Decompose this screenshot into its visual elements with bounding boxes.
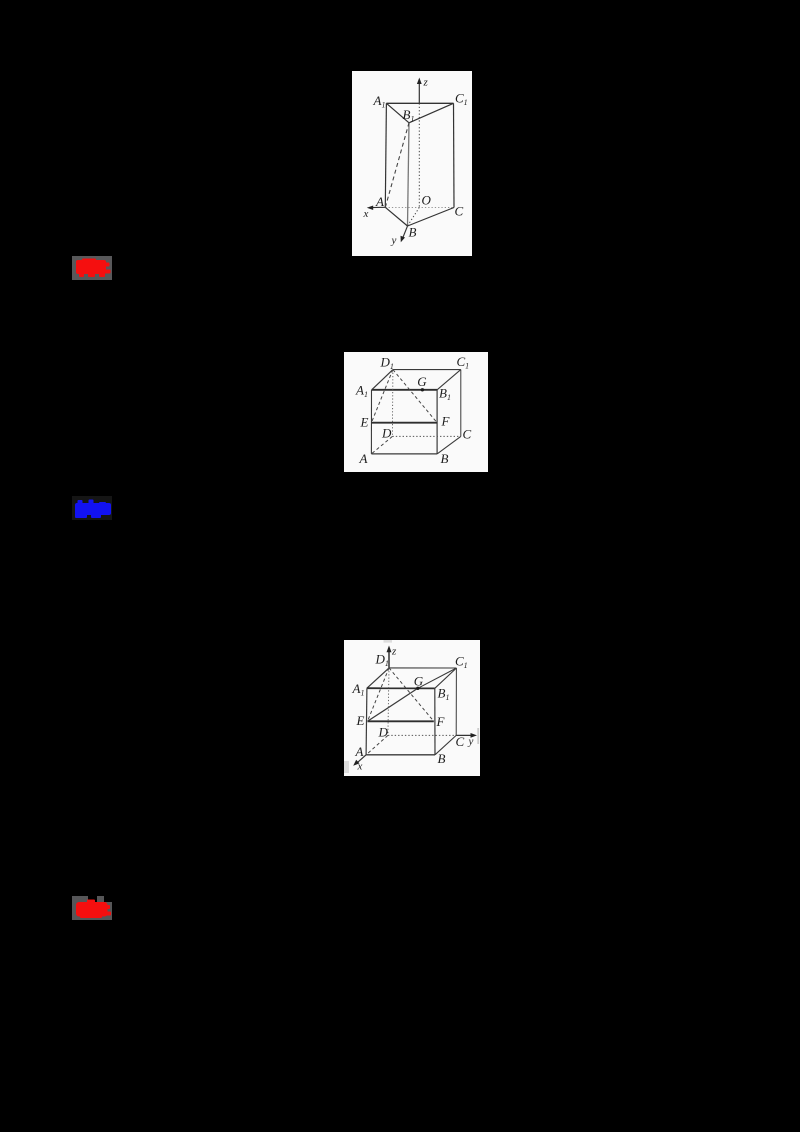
y-axis from C xyxy=(456,734,473,736)
edge EF thick xyxy=(371,422,437,424)
dashed D1-F xyxy=(389,668,434,721)
svg-text:B: B xyxy=(438,751,446,766)
edge C C1 xyxy=(460,370,462,437)
blue tag xyxy=(72,496,112,520)
edge B1C1 xyxy=(437,370,461,390)
svg-text:C1: C1 xyxy=(457,354,470,371)
dashed D-A xyxy=(371,436,392,454)
red tag 2 xyxy=(72,896,88,920)
artifact gray square bottom left xyxy=(344,761,349,773)
dotted D1-D xyxy=(388,668,389,736)
solid G-C1 xyxy=(418,668,457,688)
dotted D-C xyxy=(392,435,460,437)
y-axis solid B to arrow xyxy=(403,226,408,239)
edge BC xyxy=(435,735,456,754)
edge B B1 xyxy=(436,390,438,454)
svg-text:C: C xyxy=(455,204,464,219)
edge EF thick xyxy=(368,720,434,722)
edge B1C1 xyxy=(435,668,457,688)
x-axis from A xyxy=(356,755,366,764)
svg-text:F: F xyxy=(441,413,451,428)
x-axis arrow from A xyxy=(371,206,385,208)
svg-text:C: C xyxy=(456,734,465,749)
edge A1A xyxy=(385,103,386,207)
edge AB xyxy=(371,453,437,455)
dashed D1-E xyxy=(368,668,390,721)
z-axis arrow xyxy=(418,82,420,103)
svg-text:D1: D1 xyxy=(375,652,389,669)
dashed D-A xyxy=(366,735,388,754)
artifact light bar right xyxy=(477,728,479,744)
svg-text:z: z xyxy=(391,646,397,658)
svg-text:G: G xyxy=(417,374,427,389)
edge A1D1 xyxy=(372,370,393,390)
svg-text:A1: A1 xyxy=(355,383,368,400)
y-axis dotted O to B xyxy=(408,207,420,226)
svg-text:G: G xyxy=(414,673,424,688)
edge A1C1 xyxy=(386,102,453,104)
svg-text:B1: B1 xyxy=(439,386,451,403)
artifact gray tab top xyxy=(384,640,393,643)
dotted D1-D xyxy=(391,370,394,437)
edge B B1 xyxy=(434,688,436,755)
edge BC xyxy=(437,436,461,454)
z-axis dotted inside prism down to O xyxy=(418,103,420,207)
svg-text:A1: A1 xyxy=(352,681,365,698)
svg-text:D: D xyxy=(378,725,389,740)
panel 2: cube figure (no axes) xyxy=(344,352,488,472)
edge A1B1 thick xyxy=(367,687,435,689)
edge A1D1 xyxy=(367,668,389,688)
edge B1B xyxy=(408,123,410,226)
edge D1C1 xyxy=(393,369,461,371)
dotted D-C xyxy=(388,734,456,736)
edge A-B xyxy=(385,207,407,226)
svg-text:A: A xyxy=(359,451,368,466)
edge C1C xyxy=(453,103,456,207)
svg-text:x: x xyxy=(357,761,363,773)
svg-text:B1: B1 xyxy=(438,686,450,703)
edge C C1 xyxy=(455,668,457,735)
panel 1: triangular prism figure xyxy=(352,71,472,256)
svg-text:A: A xyxy=(375,194,384,209)
edge A1B1 xyxy=(386,103,409,123)
svg-text:x: x xyxy=(363,208,369,220)
svg-text:C1: C1 xyxy=(455,91,468,108)
edge A A1 xyxy=(365,688,368,755)
edge AB xyxy=(366,754,435,756)
edge B-C xyxy=(408,208,455,227)
dashed D1-E xyxy=(371,370,393,423)
dashed diagonal A-B1 xyxy=(385,123,409,208)
svg-text:E: E xyxy=(360,415,369,430)
edge A A1 xyxy=(370,390,372,454)
svg-text:D: D xyxy=(381,426,392,441)
svg-text:A1: A1 xyxy=(373,93,386,110)
z-axis arrow xyxy=(388,650,390,668)
svg-text:y: y xyxy=(468,736,474,748)
svg-text:E: E xyxy=(356,713,365,728)
svg-text:B1: B1 xyxy=(403,107,415,124)
svg-text:C1: C1 xyxy=(455,654,468,671)
panel 3: cube figure with axes xyxy=(344,640,480,776)
point G xyxy=(421,388,424,391)
svg-text:D1: D1 xyxy=(380,355,394,372)
edge A1B1 thick xyxy=(372,389,437,391)
svg-text:F: F xyxy=(436,714,446,729)
svg-text:C: C xyxy=(463,427,472,442)
dashed D1-F xyxy=(393,370,437,423)
svg-text:B: B xyxy=(409,225,417,240)
svg-text:B: B xyxy=(441,451,449,466)
edge B1C1 xyxy=(409,103,454,123)
edge D1C1 xyxy=(389,667,457,669)
svg-text:y: y xyxy=(391,235,397,247)
solid E-G xyxy=(368,688,418,721)
svg-text:z: z xyxy=(423,77,429,89)
point G xyxy=(416,687,419,690)
svg-text:A: A xyxy=(355,744,364,759)
dotted line A-C through O xyxy=(385,206,454,208)
red tag 1 xyxy=(72,256,112,280)
svg-text:O: O xyxy=(422,193,432,208)
